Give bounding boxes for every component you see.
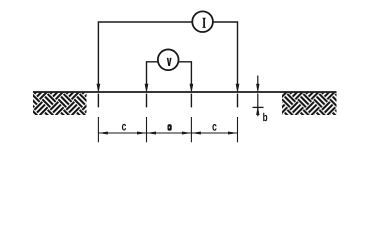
label b <box>263 113 267 122</box>
electrode arrow C1 <box>97 84 100 92</box>
label c left <box>122 124 126 131</box>
soil hatch right <box>282 93 337 115</box>
extension line 4 <box>237 117 239 142</box>
depth dimension b <box>253 76 264 117</box>
electrode arrow C2 <box>236 84 239 92</box>
extension line 1 <box>97 117 99 142</box>
label c right <box>212 124 216 131</box>
extension line 2 <box>146 117 148 142</box>
wire: voltmeter loop <box>147 62 192 85</box>
ammeter I <box>192 11 213 32</box>
ground surface line <box>33 91 337 93</box>
electrode arrow P2 <box>190 84 193 92</box>
electrode P2 buried rod <box>190 94 192 108</box>
label a <box>168 124 172 130</box>
wire: current loop top <box>98 22 237 85</box>
electrode C1 buried rod <box>97 94 99 108</box>
electrode arrow P1 <box>145 84 148 92</box>
extension line 3 <box>190 117 192 142</box>
electrode P1 buried rod <box>146 94 148 108</box>
electrode C2 buried rod <box>237 94 239 108</box>
dimension line c-a-c <box>98 132 237 135</box>
voltmeter V <box>158 49 179 70</box>
soil hatch left <box>33 93 87 115</box>
